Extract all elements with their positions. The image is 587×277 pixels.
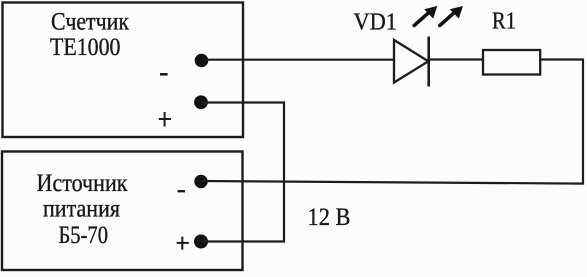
wire: LED cathode to resistor R1 left <box>429 58 484 60</box>
device box: Источник питания Б5-70 <box>2 152 243 271</box>
polarity label - (источник minus pin) <box>178 190 186 192</box>
node: источник minus terminal <box>194 175 207 188</box>
resistor R1 body <box>483 50 540 75</box>
svg-text:Источник: Источник <box>37 170 129 197</box>
LED VD1 triangle (anode) <box>394 40 428 83</box>
wire: middle vertical link <box>283 103 285 243</box>
svg-text:VD1: VD1 <box>354 9 398 35</box>
polarity label - (Счетчик minus pin) <box>160 73 168 76</box>
device box U? Счетчик ТЕ1000 <box>3 3 244 138</box>
node: Счетчик plus terminal <box>194 95 208 109</box>
polarity label + (Счетчик plus pin) <box>159 112 171 127</box>
wire: Счетчик plus stub <box>201 101 285 103</box>
node: источник plus terminal <box>194 235 208 249</box>
svg-text:питания: питания <box>43 196 120 223</box>
wire: resistor R1 right to top-right corner <box>540 58 584 60</box>
polarity label + (источник plus pin) <box>177 237 189 250</box>
wire: return run to источник minus <box>201 181 584 184</box>
svg-text:Счетчик: Счетчик <box>51 8 130 35</box>
LED VD1 cathode bar <box>427 37 430 87</box>
node: Счетчик minus terminal <box>195 54 209 68</box>
wire: Счетчик minus to LED anode <box>202 59 395 61</box>
svg-text:ТЕ1000: ТЕ1000 <box>50 34 121 61</box>
LED VD1 emission arrow 1 <box>414 6 437 26</box>
svg-text:12 В: 12 В <box>308 204 351 231</box>
wire: источник plus stub <box>201 240 285 242</box>
svg-text:Б5-70: Б5-70 <box>59 222 109 249</box>
svg-text:R1: R1 <box>492 9 516 35</box>
wire: right vertical drop <box>582 60 584 185</box>
LED VD1 emission arrow 2 <box>440 6 463 26</box>
